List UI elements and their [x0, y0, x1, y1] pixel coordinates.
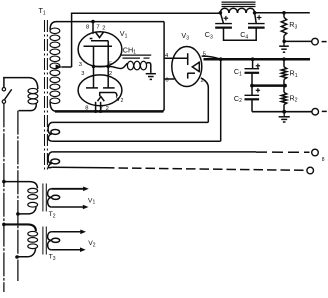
- tube V1 left leg pin 3: [93, 46, 95, 66]
- svg-text:T2: T2: [49, 211, 56, 219]
- wire C1-C2 to R1-R2 bar: [252, 84, 285, 87]
- tube V2 cathode line: [99, 93, 117, 97]
- svg-text:8: 8: [322, 157, 325, 163]
- transformer T1 core: [44, 20, 46, 171]
- capacitor C4 plus: [258, 15, 260, 20]
- svg-text:8: 8: [86, 25, 89, 31]
- wire T3 heater top arrow: [51, 231, 80, 233]
- wire R3 to terminal: [284, 40, 311, 42]
- svg-text:V1: V1: [120, 29, 128, 39]
- svg-text:V2: V2: [116, 94, 124, 104]
- transformer T2 primary winding: [28, 188, 38, 193]
- terminal heater lower: [307, 167, 314, 174]
- node T2 primary bottom junction: [16, 212, 20, 216]
- tube V3 pin6 wire: [164, 78, 174, 80]
- svg-text:2: 2: [201, 78, 204, 84]
- svg-text:R3: R3: [289, 20, 297, 30]
- node R3 bottom: [282, 40, 286, 44]
- terminal B+ upper: [312, 38, 319, 45]
- tube V3 pin5 wire: [202, 56, 220, 59]
- tube V1 right leg pin 5: [107, 41, 109, 67]
- node choke input: [219, 11, 223, 15]
- svg-text:V3: V3: [181, 31, 189, 41]
- node T2 primary top junction: [2, 180, 6, 184]
- resistor R2: [283, 86, 285, 93]
- svg-text:3: 3: [81, 71, 84, 77]
- tube V1 plate cap: [95, 32, 103, 38]
- svg-text:3: 3: [79, 62, 82, 68]
- tube V2 right leg pin 2: [107, 66, 109, 88]
- node V2 lead right: [99, 110, 102, 113]
- tube V3 plate bar: [187, 53, 189, 65]
- wire CH1 to ground: [146, 63, 150, 73]
- wire T2 primary bottom: [19, 207, 36, 214]
- tube V2 cathode tick: [99, 93, 101, 97]
- node bar right: [283, 84, 287, 88]
- svg-text:R1: R1: [290, 69, 298, 79]
- wire terminal stub mid: [322, 110, 327, 112]
- capacitor C2 lead: [251, 86, 253, 95]
- transformer T3 secondary loop: [52, 238, 60, 242]
- wire choke output to R3: [255, 12, 310, 14]
- node T3 primary top junction: [2, 223, 6, 227]
- tube V1 grid tick: [90, 38, 93, 40]
- tube V3 heater lead: [187, 73, 189, 78]
- node R3 top: [282, 11, 286, 15]
- node V1 plate junction: [91, 20, 95, 24]
- wire T3 primary top: [4, 224, 36, 231]
- winding A loop: [51, 129, 60, 134]
- tube V3 cathode arrow: [192, 62, 199, 71]
- node bus V3-cathode: [219, 57, 223, 61]
- tube V3 cathode bar: [198, 61, 200, 72]
- wire B+ bus heavy: [204, 58, 311, 61]
- capacitor C3 lead top: [220, 13, 223, 23]
- switch SW contact upper: [2, 88, 5, 91]
- capacitor C4 lead top: [255, 13, 257, 23]
- capacitor C1 lead bottom: [251, 73, 253, 85]
- svg-text:T1: T1: [39, 6, 46, 16]
- resistor R1: [283, 59, 285, 67]
- winding A top line: [53, 121, 209, 123]
- choke CH2 core: [222, 1, 256, 3]
- node T1 secondary center tap: [56, 64, 62, 69]
- tube V2 left leg pin 3: [93, 66, 95, 88]
- ground at R2: [283, 113, 285, 116]
- node right between tubes: [106, 65, 110, 69]
- tube V3 pin2 wire: [201, 78, 208, 123]
- svg-text:T3: T3: [49, 254, 56, 262]
- svg-text:R2: R2: [290, 93, 298, 103]
- wire T2 heater bottom arrow: [51, 206, 83, 208]
- svg-text:C2: C2: [234, 94, 242, 104]
- node bar left: [250, 84, 254, 88]
- svg-text:CH1: CH1: [123, 45, 136, 55]
- switch SW contact lower: [2, 100, 5, 103]
- svg-text:V2: V2: [88, 240, 96, 248]
- svg-text:V1: V1: [88, 197, 96, 205]
- wire center-tap riser top: [72, 13, 220, 67]
- terminal output mid: [312, 108, 319, 115]
- wire right vertical to V3: [163, 22, 164, 112]
- svg-text:C4: C4: [240, 30, 248, 40]
- tube V1 plate bar: [91, 40, 108, 42]
- svg-text:7: 7: [96, 25, 99, 31]
- transformer T2 secondary loop: [52, 195, 60, 199]
- tube V1 envelope: [78, 32, 122, 67]
- transformer T3 secondary: [48, 232, 52, 250]
- svg-text:2: 2: [102, 25, 105, 31]
- winding B left end: [48, 152, 53, 168]
- wire T3 heater bottom arrow: [51, 249, 80, 251]
- capacitor C2 lead bottom: [251, 99, 253, 111]
- transformer T2 secondary: [48, 189, 52, 207]
- capacitor C2 plus: [257, 88, 259, 92]
- wire V1 plate lead: [92, 22, 94, 34]
- capacitor C3 plates: [215, 23, 232, 25]
- tube V3 heater bar: [187, 72, 195, 74]
- node left between tubes: [92, 65, 96, 69]
- tube V2 right plate bar: [103, 87, 115, 89]
- wire heavy line T1-bottom to V3: [55, 110, 163, 113]
- node choke output: [253, 11, 257, 15]
- wire between nodes: [94, 65, 109, 67]
- tube V1 cathode bar: [84, 45, 113, 47]
- wire T1 primary bottom: [19, 104, 37, 111]
- wire T2 heater top arrow: [51, 188, 83, 190]
- ground at CH1: [146, 73, 156, 75]
- switch SW blade: [4, 89, 11, 100]
- transformer T3 core: [42, 227, 44, 255]
- resistor R3: [283, 13, 285, 18]
- choke CH1 core: [121, 54, 152, 56]
- wire C3 bottom: [224, 28, 257, 41]
- wire center tap: [62, 66, 72, 68]
- winding B bottom line: [53, 166, 105, 169]
- transformer T1 primary winding: [28, 88, 38, 93]
- node bus C1: [251, 57, 255, 61]
- wire C2 bottom line: [252, 111, 312, 113]
- transformer T3 primary winding: [28, 231, 38, 236]
- choke CH2 winding: [220, 8, 229, 13]
- capacitor C1 plus: [257, 64, 259, 68]
- node bus R1: [282, 57, 286, 61]
- svg-text:6: 6: [165, 77, 168, 83]
- capacitor C2 plates: [245, 94, 260, 96]
- transformer T1 HV secondary winding: [50, 28, 60, 34]
- tube V2 envelope: [78, 75, 122, 106]
- wire switch to primary top: [4, 78, 38, 89]
- wire T2 primary top: [4, 182, 38, 189]
- svg-text:C3: C3: [205, 30, 213, 40]
- capacitor C1 lead: [252, 59, 254, 68]
- tube V3 envelope: [172, 47, 202, 87]
- wire AC line left: [3, 103, 5, 292]
- tube V3 plate lead pin 4: [164, 57, 187, 59]
- transformer T2 core: [42, 184, 44, 212]
- tube V2 filament lead left: [95, 102, 97, 112]
- tube V2 left plate bar: [86, 87, 98, 89]
- svg-text:C1: C1: [234, 67, 242, 77]
- wire bus to capsule-A bottom: [220, 59, 222, 141]
- capacitor C1 plates: [245, 68, 260, 70]
- capacitor C3 plus: [225, 16, 227, 21]
- choke CH1 winding: [127, 61, 133, 70]
- terminal heater upper: [312, 149, 319, 156]
- wire secondary bottom curve: [50, 102, 56, 111]
- node V2 lead left: [94, 110, 97, 113]
- capacitor C4 plates: [248, 23, 265, 25]
- node R2 bottom: [282, 110, 286, 114]
- wire V1 cathode to CH1: [108, 63, 127, 68]
- wire AC line 2: [17, 111, 19, 281]
- winding B bottom dashed: [105, 168, 305, 171]
- winding A bottom line: [53, 140, 221, 142]
- winding B top line: [53, 151, 256, 153]
- svg-text:5: 5: [203, 52, 206, 58]
- wire secondary top curve: [50, 22, 56, 30]
- tube V2 filament lead right: [100, 102, 102, 112]
- ground at R3: [283, 43, 285, 46]
- wire secondary-top to plates: [56, 21, 164, 23]
- winding A left end: [48, 122, 53, 141]
- wire T3 primary bottom: [18, 248, 36, 256]
- node T3 primary bottom junction: [15, 255, 19, 259]
- wire terminal stub: [322, 41, 327, 43]
- tube V2 filament: [98, 97, 105, 102]
- winding B loop: [51, 159, 60, 164]
- winding B top dashed: [256, 151, 310, 153]
